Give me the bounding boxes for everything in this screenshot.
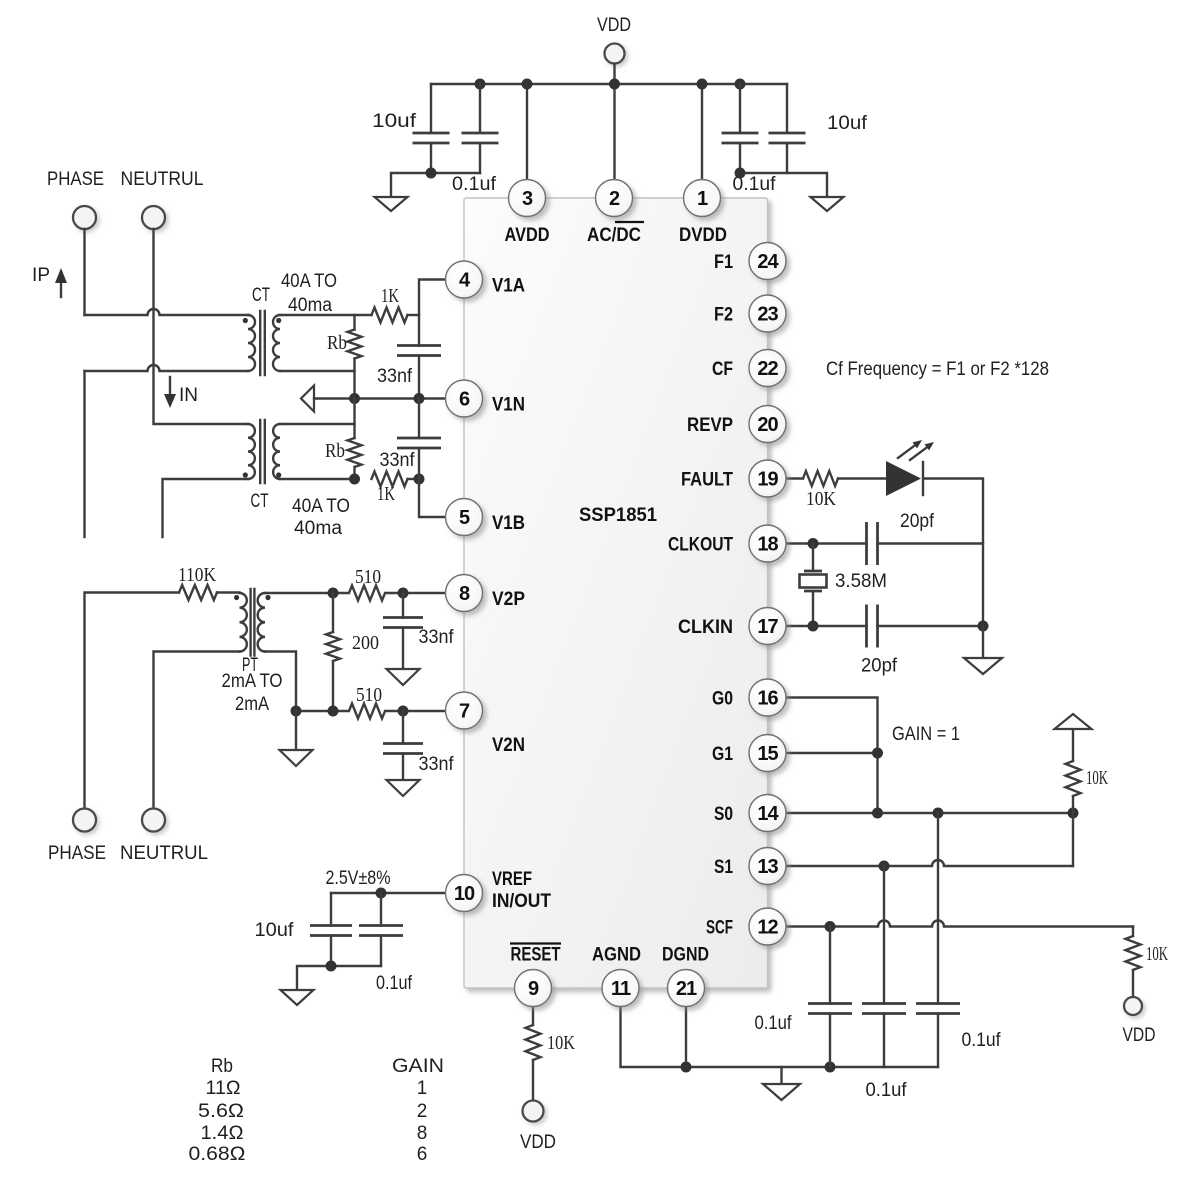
svg-text:IP: IP [32,265,50,286]
ground below V2N node [295,711,297,750]
svg-text:SCF: SCF [706,918,733,939]
svg-text:REVP: REVP [687,415,733,436]
svg-text:21: 21 [676,978,697,1000]
svg-text:G0: G0 [712,689,733,710]
svg-text:2.5V±8%: 2.5V±8% [326,868,391,889]
svg-text:2: 2 [417,1101,428,1122]
svg-text:8: 8 [417,1123,428,1144]
wire VDD stem [613,64,615,180]
wire pin3 to bus [526,84,528,180]
svg-text:1: 1 [417,1078,428,1099]
pin 4 [446,261,483,298]
transformer CT1 [248,315,255,371]
svg-text:1K: 1K [381,285,399,307]
svg-text:Rb: Rb [325,440,345,462]
svg-text:6: 6 [459,389,470,411]
node VDD terminal right [1124,997,1142,1015]
capacitor 20pf (CLKOUT) [867,522,878,565]
pin 8 [446,575,483,612]
wire AGND DGND ground bus [621,1007,939,1068]
pin 6 [446,380,483,417]
pin 10 [446,875,483,912]
svg-text:PHASE: PHASE [47,169,104,190]
capacitor 33nf (V1A) [418,315,420,346]
wire pin1 to bus [701,84,703,180]
capacitor 0.1uf (S0) [937,813,939,1004]
svg-text:20pf: 20pf [900,511,935,532]
pin 16 G0 [749,679,786,716]
svg-text:14: 14 [757,803,779,825]
pin 7 [446,692,483,729]
pin 2 AC/DC [596,180,633,217]
resistor 1K (bottom) [372,472,408,487]
svg-text:CT: CT [252,285,270,306]
svg-text:AC/DC: AC/DC [587,225,641,246]
wire phase line to CT1 primary (hops neutral) [85,309,249,315]
power arrow VDD (pull-up) [1055,714,1092,729]
svg-text:0.1uf: 0.1uf [962,1030,1002,1051]
node V1N common arrow [301,386,314,412]
svg-text:19: 19 [757,469,778,491]
svg-text:VDD: VDD [1123,1025,1156,1046]
capacitor 10uf top-right [786,84,788,133]
wire VREF cap ground run [297,966,381,990]
LED arrows [898,445,915,458]
wire pin13 S1 row (hop at 938) [786,860,1073,866]
wire PT primary bottom to lower neutral [154,652,240,809]
svg-text:NEUTRUL: NEUTRUL [121,169,204,190]
wire up to pin4 V1A [419,280,446,316]
crystal 3.58M [812,544,814,572]
svg-text:10K: 10K [547,1032,575,1054]
wire CT2 secondary bottom [280,478,355,480]
ground VREF [281,990,314,1005]
pin 22 CF [749,350,786,387]
svg-text:22: 22 [757,358,778,380]
ground below 33nf V2P [387,669,420,685]
wire CT1 secondary top to 1K [280,314,372,316]
svg-text:IN: IN [179,385,198,406]
svg-text:1K: 1K [377,483,395,505]
svg-text:CLKOUT: CLKOUT [668,535,733,556]
svg-text:8: 8 [459,583,470,605]
svg-text:10K: 10K [806,488,836,510]
wire pin16 G0 [786,698,878,814]
ground top-right [811,197,844,211]
svg-text:VDD: VDD [520,1132,556,1153]
pin 1 DVDD [684,180,721,217]
svg-text:RESET: RESET [511,945,561,966]
capacitor 33nf (V2N) [402,711,404,744]
wire pin14 S0 row [786,812,1073,814]
wire V2N row to pin7 [296,710,446,712]
svg-text:F1: F1 [714,252,733,273]
pin 23 F2 [749,295,786,332]
svg-text:S1: S1 [714,857,733,878]
wire CT2 primary bottom stub [163,479,249,537]
pin 5 [446,499,483,536]
svg-text:Rb: Rb [327,332,347,354]
svg-text:10: 10 [454,883,475,905]
svg-text:IN/OUT: IN/OUT [492,891,551,912]
svg-text:FAULT: FAULT [681,470,733,491]
pin 9 RESET [515,970,552,1007]
ground right bus [982,626,984,658]
svg-text:33nf: 33nf [380,450,416,471]
resistor 510 (top) [349,584,385,602]
svg-text:33nf: 33nf [419,754,455,775]
resistor 110K [179,585,217,600]
ground main bottom [780,1067,782,1084]
svg-text:DGND: DGND [662,945,709,966]
svg-text:SSP1851: SSP1851 [579,505,657,526]
svg-text:CF: CF [712,359,733,380]
svg-text:VDD: VDD [597,15,631,36]
wire pin15 G1 [786,752,878,754]
pin 11 AGND [602,970,639,1007]
wire NEUTRUL down to CT2 primary [154,229,249,424]
junction dots on bus [475,79,486,90]
svg-text:13: 13 [757,856,778,878]
wire to right ground [740,173,827,197]
pin 20 REVP [749,406,786,443]
resistor 510 (bottom) [349,702,385,720]
resistor 10K (SCF to VDD) [1132,927,1134,937]
svg-text:DVDD: DVDD [679,225,727,246]
wire PT secondary top to pin8 V2P [265,592,446,594]
svg-text:2: 2 [609,188,620,210]
capacitor 33nf (V2P) [402,593,404,618]
svg-text:110K: 110K [178,564,216,586]
svg-text:5: 5 [459,507,470,529]
svg-text:18: 18 [757,534,778,556]
svg-text:0.1uf: 0.1uf [452,174,497,195]
svg-text:200: 200 [352,632,379,654]
capacitor 0.1uf top-left [479,84,481,133]
svg-text:10uf: 10uf [827,113,868,134]
svg-text:10uf: 10uf [255,920,295,941]
svg-text:NEUTRUL: NEUTRUL [120,843,208,864]
svg-text:3: 3 [522,188,533,210]
resistor 1K (top) [372,308,408,323]
svg-text:GAIN: GAIN [392,1056,444,1077]
capacitor 20pf (CLKIN) [867,605,878,648]
capacitor 10uf (VREF) [330,893,332,926]
svg-text:Cf Frequency = F1 or F2 *128: Cf Frequency = F1 or F2 *128 [826,359,1049,380]
resistor Rb (bottom burden) [353,399,355,439]
wire CT2 secondary top [280,423,355,425]
svg-text:6: 6 [417,1144,428,1165]
wire to left ground [391,173,480,197]
svg-text:7: 7 [459,701,470,723]
svg-text:11Ω: 11Ω [206,1078,241,1099]
pin 13 S1 [749,848,786,885]
resistor 10K pull-up (S0/S1) [1072,796,1074,813]
svg-text:V2P: V2P [492,589,525,610]
svg-text:40ma: 40ma [288,295,332,316]
wire down to pin5 V1B [419,479,446,517]
transformer CT2 [248,424,255,479]
svg-text:Rb: Rb [211,1056,233,1077]
wire top supply bus [431,83,787,85]
svg-text:VREF: VREF [492,869,532,890]
svg-text:11: 11 [611,978,631,1000]
svg-text:33nf: 33nf [419,627,455,648]
node NEUTRUL bottom terminal [142,809,165,832]
resistor 10K (FAULT) [803,471,838,486]
svg-text:V1B: V1B [492,513,525,534]
svg-text:510: 510 [356,684,382,706]
svg-text:10K: 10K [1146,943,1168,965]
svg-text:V1A: V1A [492,276,525,297]
pin 19 FAULT [749,460,786,497]
wire pin19 FAULT [786,477,803,479]
wire PHASE down [83,229,85,315]
svg-text:15: 15 [757,743,778,765]
svg-text:17: 17 [757,616,778,638]
svg-text:PHASE: PHASE [48,843,106,864]
svg-text:1.4Ω: 1.4Ω [201,1123,244,1144]
svg-text:23: 23 [757,304,778,326]
svg-text:V1N: V1N [492,395,525,416]
capacitor 0.1uf (SCF) [829,927,831,1004]
svg-text:S0: S0 [714,804,733,825]
wire CT1 primary bottom return (hops neutral) [85,365,249,371]
resistor 200 shunt [332,593,334,632]
svg-text:1: 1 [697,188,708,210]
svg-text:0.1uf: 0.1uf [755,1013,793,1034]
svg-text:20: 20 [757,414,778,436]
pin 3 AVDD [509,180,546,217]
svg-text:10uf: 10uf [372,111,417,132]
wire pin18 CLKOUT row [786,542,867,544]
svg-text:5.6Ω: 5.6Ω [198,1101,244,1122]
svg-text:V2N: V2N [492,735,525,756]
wire V1N row to pin6 [314,397,446,399]
capacitor 0.1uf (S1) [883,866,885,1004]
svg-text:40ma: 40ma [294,518,342,539]
svg-text:0.68Ω: 0.68Ω [189,1144,246,1165]
ground top-left [375,197,408,211]
pin 21 DGND [668,970,705,1007]
IC body U1 SSP1851 [464,198,768,988]
transformer PT [240,593,247,652]
wire pin10 VREF to caps [331,892,446,894]
wire pin12 SCF row (hops at 884,938) [786,921,1133,927]
LED D1 [886,461,921,496]
node VDD terminal below RESET [523,1101,544,1122]
svg-text:AGND: AGND [592,945,641,966]
pin 17 CLKIN [749,608,786,645]
capacitor 10uf top-left [430,84,432,133]
resistor Rb (top burden) [353,315,355,330]
svg-text:510: 510 [355,566,381,588]
wire lower phase to 110K [85,593,180,809]
wire LED cathode to right bus [925,479,983,627]
pin 18 CLKOUT [749,525,786,562]
svg-text:10K: 10K [1086,767,1108,789]
ground below 33nf V2N [387,780,420,796]
capacitor 0.1uf (VREF) [380,893,382,926]
wire pin9 RESET down [532,1007,534,1026]
wire PT secondary bottom [265,652,296,712]
svg-text:G1: G1 [712,744,733,765]
svg-text:F2: F2 [714,305,733,326]
wire pin17 CLKIN row [786,625,867,627]
svg-text:12: 12 [757,917,778,939]
svg-text:CLKIN: CLKIN [678,617,733,638]
svg-text:3.58M: 3.58M [835,571,887,592]
svg-text:33nf: 33nf [377,366,413,387]
svg-text:0.1uf: 0.1uf [866,1080,908,1101]
capacitor 33nf (V1B) [418,399,420,439]
pin 24 F1 [749,243,786,280]
resistor 10K (RESET) [526,1025,541,1060]
pin 12 SCF [749,908,786,945]
svg-text:2mA: 2mA [235,694,269,715]
node PHASE bottom terminal [73,809,96,832]
pin 15 G1 [749,735,786,772]
svg-text:40A TO: 40A TO [292,496,350,517]
capacitor 0.1uf top-right [739,84,741,133]
pin 14 S0 [749,795,786,832]
svg-text:24: 24 [757,251,779,273]
svg-text:AVDD: AVDD [505,225,550,246]
svg-text:0.1uf: 0.1uf [376,973,413,994]
wire CT1 secondary bottom [280,370,355,372]
svg-text:2mA TO: 2mA TO [222,671,283,692]
svg-text:16: 16 [757,688,778,710]
svg-text:9: 9 [528,978,539,1000]
svg-text:GAIN = 1: GAIN = 1 [892,724,960,745]
svg-text:20pf: 20pf [861,656,898,677]
svg-text:CT: CT [251,491,269,512]
svg-text:40A TO: 40A TO [281,271,337,292]
wire stub down from CT1 return [83,371,85,537]
